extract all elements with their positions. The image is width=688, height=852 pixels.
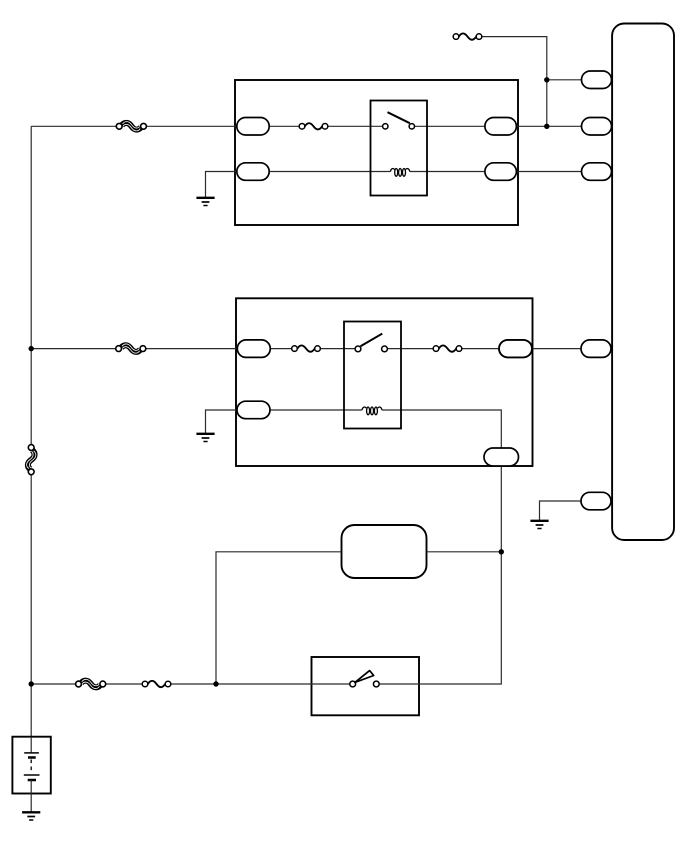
relay R2 contact blade bbox=[361, 334, 383, 347]
battery negative lead bbox=[30, 780, 32, 812]
wire: top branch from fuse to node, down to row 1 bbox=[479, 37, 547, 127]
terminal pill box2 input row3 bbox=[237, 340, 270, 358]
wire: row 4 pill to relay 2 coil bbox=[270, 409, 362, 411]
wire: node to connector pin A bbox=[547, 79, 582, 81]
wire: module left lead down to bottom feed bbox=[216, 552, 342, 684]
wire: row 2 relay 1 coil to output pill bbox=[410, 171, 486, 173]
wire: bottom feed bus to fusible link 4 bbox=[31, 683, 78, 685]
fuse on bottom feed bbox=[142, 681, 171, 687]
ECU connector (tall rounded rectangle) bbox=[612, 24, 674, 541]
fusible link FL4 on bottom feed bbox=[76, 679, 106, 688]
wire: ground lead at connector pin E bbox=[540, 501, 582, 521]
battery plate short 2 bbox=[28, 779, 36, 782]
relay R1 contact blade bbox=[388, 112, 410, 123]
battery plate long 2 bbox=[24, 774, 40, 776]
junction node at top branch bbox=[544, 77, 549, 82]
connector pin B bbox=[582, 118, 612, 136]
wire: row 3 relay 2 contact to second fuse bbox=[385, 348, 437, 350]
ground symbol at box 2 bbox=[196, 434, 214, 442]
wire: row 2 pill to relay 1 coil bbox=[269, 171, 391, 173]
fuse 2 in box 2 bbox=[433, 345, 462, 351]
wire: left bus lower segment to battery bbox=[30, 473, 32, 738]
switch box bbox=[312, 657, 420, 715]
junction node module output bbox=[499, 549, 504, 554]
wire: row 1 inside box 1, pill to fuse bbox=[269, 125, 302, 127]
ground symbol at connector bbox=[530, 521, 548, 529]
connector pin E bbox=[581, 492, 611, 510]
fuse in box 1 bbox=[299, 123, 328, 129]
relay R2 case bbox=[344, 322, 401, 429]
battery plate short 1 bbox=[28, 756, 36, 759]
terminal pill box2 output row3 bbox=[499, 340, 532, 358]
ground symbol at battery bbox=[22, 812, 40, 820]
wire: row 1 bus to fusible link bbox=[31, 125, 119, 127]
wire: box 2 bottom pill down to switch line bbox=[376, 466, 501, 685]
terminal pill box1 input row2 bbox=[237, 163, 269, 181]
wire: bottom feed fuse to switch bbox=[168, 683, 353, 685]
wire: ground lead of box 2 bbox=[206, 410, 239, 434]
connector pin C bbox=[582, 163, 612, 181]
wire: row 1 fuse to relay 1 contact bbox=[325, 125, 385, 127]
battery plate long 1 bbox=[24, 752, 39, 754]
fusible link FL1 on row 1 bbox=[116, 122, 146, 131]
wire: row 1 fusible link to box 1 bbox=[144, 125, 238, 127]
terminal pill box2 input row4 bbox=[237, 401, 270, 419]
connector pin D bbox=[581, 340, 611, 358]
terminal pill box1 input row1 bbox=[237, 118, 269, 136]
battery internal lead bbox=[30, 737, 32, 753]
relay R1 contact terminals bbox=[383, 124, 388, 129]
relay unit box 1 bbox=[235, 80, 518, 225]
relay R1 coil bbox=[390, 168, 409, 176]
fuse 1 in box 2 bbox=[292, 345, 321, 351]
battery dashed link bbox=[30, 760, 32, 774]
wire: row 3 pill to fuse bbox=[270, 348, 295, 350]
terminal pill box2 bottom bbox=[484, 448, 519, 466]
fusible link FL3 on left bus (vertical) bbox=[27, 445, 36, 475]
ground symbol at box 1 bbox=[196, 198, 214, 206]
wire: bottom feed fusible link to fuse bbox=[103, 683, 145, 685]
junction node bottom feed to module bbox=[213, 681, 218, 686]
wire: row 2 box 1 to connector pin C bbox=[516, 171, 582, 173]
terminal pill box1 output row1 bbox=[485, 118, 517, 136]
junction node bus row 3 bbox=[29, 346, 34, 351]
terminal pill box1 output row2 bbox=[485, 163, 517, 181]
relay R2 coil bbox=[362, 407, 382, 415]
battery case bbox=[12, 737, 50, 794]
wire: row 3 fuse to relay 2 contact bbox=[318, 348, 359, 350]
relay R1 case bbox=[371, 101, 428, 196]
wire: row 3 box 2 output to connector pin D bbox=[533, 348, 582, 350]
wire: row 3 bus to fusible link 2 bbox=[31, 348, 118, 350]
switch lever bbox=[355, 671, 374, 683]
relay unit box 2 bbox=[236, 298, 533, 466]
relay R2 contact terminals bbox=[355, 346, 361, 352]
wire: row 3 second fuse to output pill bbox=[459, 348, 499, 350]
wire: row 4 relay 2 coil to bottom pill bbox=[382, 410, 501, 449]
wire: module right lead to vertical run bbox=[427, 551, 502, 553]
fusible link FL2 on row 3 bbox=[116, 344, 146, 353]
wire: row 1 box 1 output to connector pin B bbox=[516, 125, 582, 127]
junction node at row 1 bbox=[544, 124, 549, 129]
wire: ground lead of box 1 bbox=[206, 172, 238, 198]
wire: row 1 relay 1 contact to output pill bbox=[412, 125, 486, 127]
control module (rounded rectangle) bbox=[342, 525, 427, 578]
wire: left bus upper segment bbox=[30, 126, 32, 447]
switch contact terminals bbox=[350, 681, 356, 687]
junction node bus bottom feed bbox=[29, 681, 34, 686]
connector pin A bbox=[582, 71, 612, 89]
fuse at top branch bbox=[453, 33, 482, 39]
wire: row 3 fusible link 2 to box 2 bbox=[143, 348, 238, 350]
